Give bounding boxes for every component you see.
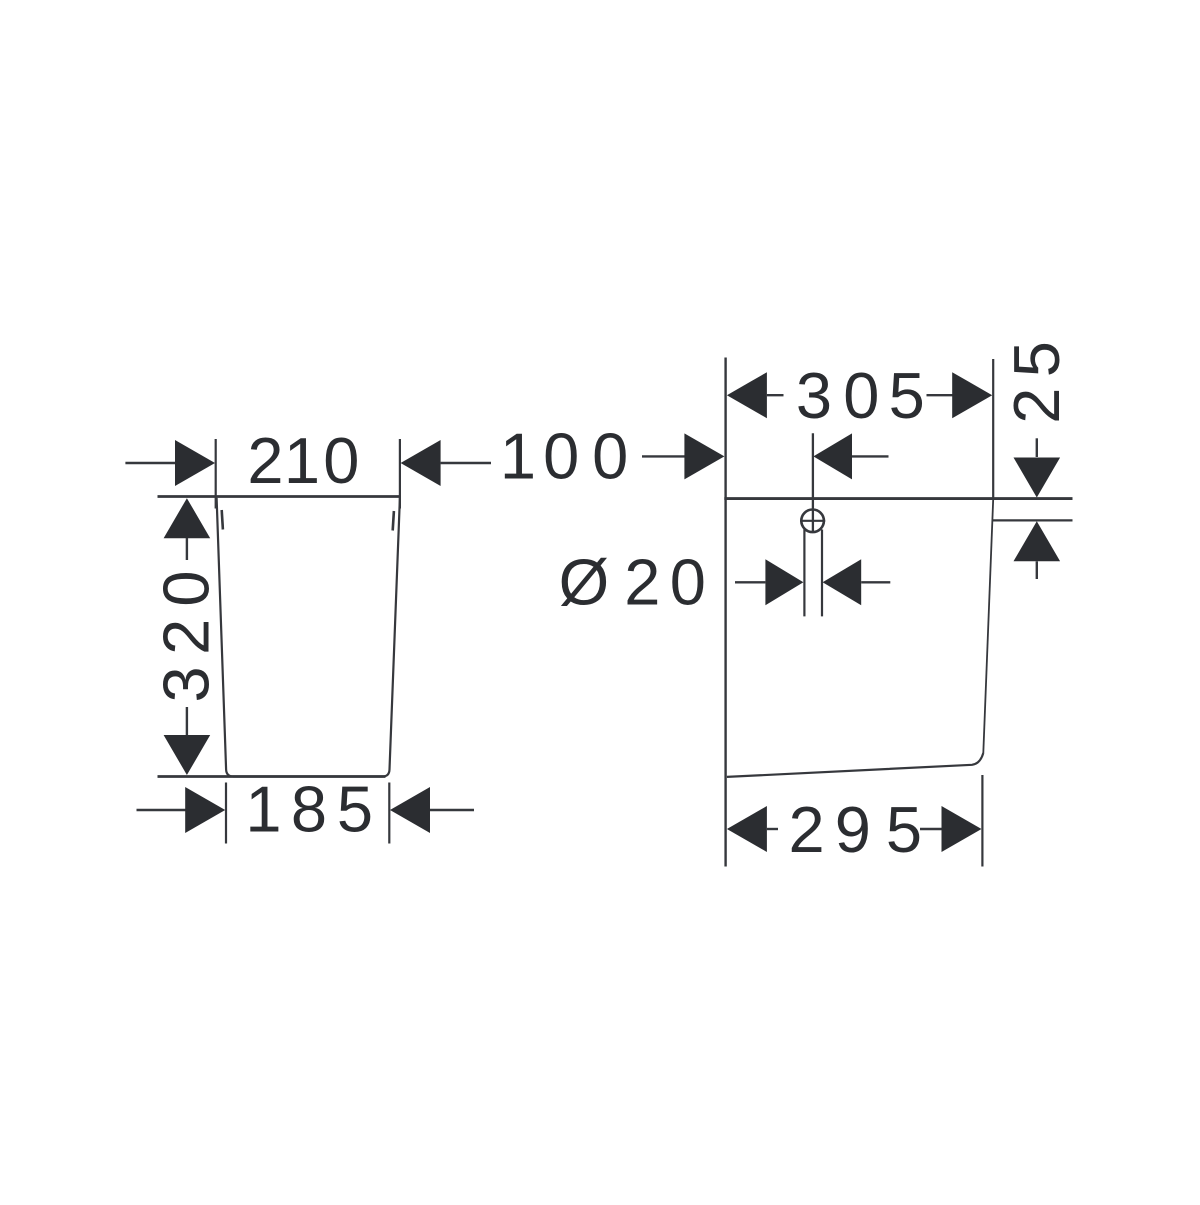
faucet hole circle	[801, 510, 824, 533]
faucet hole cross line	[800, 520, 825, 522]
100 dimension tail	[642, 455, 685, 457]
svg-text:5: 5	[886, 793, 922, 866]
295 arrow left	[727, 806, 767, 852]
label 295	[789, 793, 923, 866]
305 arrow right	[952, 372, 992, 418]
svg-text:0: 0	[543, 420, 579, 493]
100 arrow right-pointing	[684, 433, 724, 479]
25 arrow up	[1014, 521, 1061, 561]
305 arrow left	[727, 372, 767, 418]
svg-text:5: 5	[1000, 341, 1073, 377]
svg-text:9: 9	[835, 793, 871, 866]
svg-text:3: 3	[796, 359, 832, 432]
320 dimension upper tail	[186, 538, 188, 560]
210 arrow left	[175, 440, 215, 486]
svg-text:5: 5	[337, 773, 373, 846]
185 arrow right	[390, 787, 430, 833]
svg-text:1: 1	[284, 424, 320, 497]
320 dimension lower tail	[186, 707, 188, 737]
25 dimension lower tail	[1036, 561, 1038, 579]
305 dimension left tail	[767, 394, 784, 396]
left view pedestal outline	[217, 498, 400, 777]
185 extension line left	[225, 783, 227, 844]
svg-text:8: 8	[291, 773, 327, 846]
svg-text:1: 1	[500, 420, 536, 493]
185 arrow left	[185, 787, 225, 833]
100 arrow left-pointing at hole axis	[813, 433, 852, 479]
label 100	[500, 420, 628, 493]
295 dimension left tail	[767, 828, 778, 830]
label 305	[796, 359, 925, 432]
svg-text:0: 0	[323, 424, 359, 497]
210 extension line left	[215, 439, 217, 509]
320 arrow up	[164, 498, 211, 538]
305 dimension right tail	[927, 394, 953, 396]
210 dimension right tail	[441, 462, 491, 464]
diameter 20 dimension right tail	[861, 581, 890, 583]
305 extension line right	[992, 359, 994, 498]
svg-text:Ø: Ø	[559, 546, 610, 619]
label 185	[245, 773, 373, 846]
25 arrow down	[1014, 458, 1061, 498]
svg-text:0: 0	[670, 546, 706, 619]
210 dimension left tail	[125, 462, 176, 464]
svg-text:2: 2	[247, 424, 283, 497]
svg-text:0: 0	[592, 420, 628, 493]
diameter 20 arrow left	[765, 559, 803, 605]
210 extension line right	[399, 439, 401, 509]
svg-text:0: 0	[150, 571, 223, 607]
svg-text:2: 2	[150, 619, 223, 655]
25 dimension upper tail	[1036, 438, 1038, 457]
svg-text:2: 2	[624, 546, 660, 619]
right view bottom edge	[727, 753, 983, 777]
100 second arrow tail	[852, 455, 889, 457]
diameter 20 dimension left tail	[735, 581, 765, 583]
right inner edge tick	[393, 511, 394, 531]
label 320 rotated	[150, 571, 223, 703]
left inner edge tick	[222, 510, 223, 530]
left view bottom line	[158, 775, 386, 778]
label 25 rotated	[1000, 341, 1073, 424]
right view front edge	[983, 499, 993, 753]
svg-text:3: 3	[150, 666, 223, 702]
185 extension line right	[388, 783, 390, 844]
diameter 20 arrow right	[823, 559, 862, 605]
right view top surface line	[724, 497, 1072, 500]
295 arrow right	[942, 806, 982, 852]
left view top surface line	[158, 495, 401, 498]
right view back wall line	[724, 358, 726, 867]
320 arrow down	[164, 735, 211, 775]
svg-text:0: 0	[843, 359, 879, 432]
295 dimension right tail	[920, 828, 942, 830]
faucet hole left wall	[803, 530, 805, 617]
210 arrow right	[401, 440, 441, 486]
faucet hole centerline	[812, 433, 814, 532]
svg-text:2: 2	[789, 793, 825, 866]
faucet hole right wall	[821, 530, 823, 617]
svg-text:5: 5	[889, 359, 925, 432]
185 dimension left tail	[137, 809, 187, 811]
svg-text:1: 1	[245, 773, 281, 846]
label 210	[247, 424, 359, 497]
185 dimension right tail	[430, 809, 474, 811]
295 extension line right	[981, 775, 983, 867]
label diameter 20	[559, 546, 706, 619]
svg-text:2: 2	[1000, 388, 1073, 424]
right view front ledge line	[992, 519, 1073, 521]
